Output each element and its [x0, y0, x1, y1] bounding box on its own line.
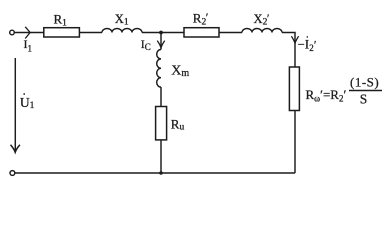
svg-text:I1: I1	[24, 37, 33, 54]
wire Rw' to bottom	[294, 111, 296, 174]
bottom wire	[15, 172, 295, 174]
terminal top-left	[10, 30, 15, 35]
voltage arrow U1	[14, 58, 16, 152]
svg-text:R2′: R2′	[193, 10, 209, 27]
svg-text:R1: R1	[54, 12, 68, 29]
inductor Xm	[157, 50, 161, 88]
svg-text:X2′: X2′	[254, 11, 270, 28]
current arrow I1	[25, 27, 30, 39]
svg-text:U1: U1	[20, 95, 35, 111]
wire Xm to Ru	[160, 87, 162, 106]
svg-text:Rω′=R2′: Rω′=R2′	[306, 87, 347, 104]
dot over U1	[23, 93, 25, 95]
resistor R2'	[184, 28, 219, 37]
wire R2' to X2'	[219, 32, 242, 34]
wire X1 to R2'	[142, 32, 184, 34]
current arrow -I2'	[291, 36, 298, 43]
inductor X2'	[242, 29, 282, 33]
svg-text:S: S	[360, 91, 368, 106]
current arrow Ic	[157, 41, 164, 48]
svg-text:IC: IC	[141, 37, 151, 52]
svg-text:Ru: Ru	[171, 117, 185, 133]
terminal bottom-left	[10, 171, 15, 176]
wire Ru to bottom	[160, 140, 162, 173]
svg-text:(1-S): (1-S)	[350, 75, 379, 90]
resistor Ru	[156, 107, 167, 140]
wire R1 to X1	[79, 32, 102, 34]
wire junction to Ic arrow / Xm	[160, 33, 162, 50]
inductor X1	[102, 29, 142, 33]
resistor R1	[44, 28, 80, 37]
wire input top	[15, 32, 44, 34]
wire X2' to right corner	[282, 33, 295, 68]
node junction top (magnetizing branch)	[159, 31, 163, 35]
svg-text:X1: X1	[115, 12, 129, 27]
svg-text:Xm: Xm	[171, 64, 189, 79]
svg-text:−I2′: −I2′	[298, 38, 317, 54]
node junction bottom	[159, 171, 163, 175]
fraction bar	[349, 90, 382, 92]
dot over I2'	[307, 36, 309, 38]
resistor Rw' (load)	[289, 67, 299, 111]
